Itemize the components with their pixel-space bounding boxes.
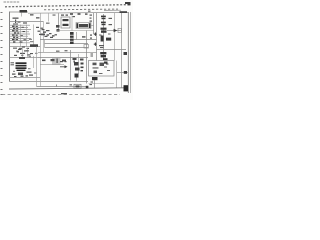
wire vertical x96 bbox=[96, 13, 98, 61]
connector J1 grid vertical 1 bbox=[20, 25, 22, 47]
bus wire 2 bbox=[45, 43, 89, 45]
relay stub down bbox=[21, 13, 23, 17]
junction tick x56 bbox=[56, 85, 58, 87]
connector J1 pin rows bbox=[10, 25, 31, 43]
IF can core bars bbox=[63, 19, 69, 26]
wire mid-left bbox=[10, 57, 39, 59]
wire long horizontal y57 bbox=[38, 57, 88, 59]
specks left of U2 column bbox=[90, 15, 93, 22]
connector J1 right vertical bbox=[33, 25, 35, 48]
polarity ticks bbox=[11, 62, 15, 65]
dash-dot boundary bottom bbox=[2, 94, 120, 96]
wire top-left horizontal bbox=[10, 11, 29, 13]
transformer T2 (dark stack) bbox=[16, 62, 27, 71]
shaded can outline bbox=[52, 58, 61, 65]
resistor R3 body bbox=[30, 44, 38, 47]
relay K1 bbox=[20, 10, 28, 13]
wire vertical x116 bbox=[116, 61, 118, 89]
speck above bus B bbox=[90, 84, 93, 85]
wire horizontal y49 right bbox=[97, 49, 127, 51]
specks under connector bbox=[13, 48, 22, 49]
arrowhead before box bbox=[114, 29, 118, 32]
wire horizontal y64 bbox=[40, 63, 64, 65]
ground bus bottom bbox=[9, 88, 125, 89]
speck on wire bbox=[23, 22, 27, 23]
arrow mark on y72 wire bbox=[124, 71, 127, 74]
speck above bus A bbox=[70, 84, 73, 85]
speck top-left B bbox=[36, 17, 40, 18]
sheet edge second line bbox=[129, 12, 131, 93]
connector J1 faint right specks bbox=[29, 39, 34, 42]
stub vertical right of stack bbox=[33, 56, 35, 68]
small dark mark right rail bbox=[124, 52, 128, 55]
speck on top wire bbox=[53, 15, 56, 16]
wire horizontal upper-left bbox=[10, 21, 44, 23]
wire under can bbox=[56, 30, 94, 32]
wire horizontal y72 right bbox=[117, 72, 129, 74]
paper background bbox=[0, 0, 133, 100]
wire vertical x76 bbox=[76, 32, 78, 40]
speck above can bbox=[73, 16, 76, 17]
transistor Q1 cluster bbox=[13, 18, 21, 25]
scattered faint specks mid-left bbox=[13, 51, 38, 74]
speck on upper-left wire bbox=[46, 23, 50, 24]
oscillator text specks bbox=[41, 29, 55, 37]
bus left vertical bbox=[44, 40, 46, 48]
capacitor C2 bbox=[19, 57, 25, 59]
bus wire 4 bbox=[38, 51, 97, 53]
second label row bbox=[44, 8, 118, 11]
wire horizontal y86 bbox=[37, 86, 89, 88]
wire vertical riser B bbox=[40, 13, 42, 86]
capacitor C6 blob bbox=[75, 74, 79, 78]
corner mark top right bbox=[125, 2, 131, 5]
diode D2 marks bbox=[12, 72, 33, 78]
specks above lower-left wire bbox=[21, 75, 29, 76]
specks below right wire bbox=[99, 34, 111, 36]
wire vertical riser C bbox=[43, 22, 45, 53]
left vertical rail wire bbox=[9, 12, 11, 82]
wire vertical x58 bbox=[58, 13, 60, 30]
wire vertical x93 bbox=[93, 13, 95, 34]
wire vertical x72 bbox=[71, 16, 73, 31]
extra specks mid-left bbox=[26, 50, 33, 54]
speck on top wire right bbox=[88, 11, 91, 12]
connector J1 pin labels bbox=[12, 26, 26, 43]
box U3 text bbox=[93, 63, 109, 74]
small box right end bbox=[118, 29, 122, 33]
can right stub bbox=[91, 25, 94, 27]
wire vertical x70 bbox=[70, 50, 72, 81]
diode D1 marks bbox=[14, 46, 31, 56]
specks under top wire bbox=[70, 13, 88, 15]
wire vertical riser A bbox=[36, 47, 38, 87]
top label row (column headers) bbox=[5, 5, 130, 7]
title text bbox=[4, 1, 21, 3]
box U3 extra specks bbox=[99, 67, 110, 75]
diagonal speck band (component values) bbox=[36, 27, 57, 38]
wire vertical x86 bbox=[86, 31, 88, 84]
fuse box F1 bbox=[74, 84, 81, 88]
wire with resistor R3 bbox=[10, 46, 40, 48]
bus wire 3 bbox=[45, 47, 89, 49]
plus mark node 2 bbox=[94, 43, 97, 46]
transistor Q2 specks bbox=[56, 15, 68, 32]
fuse box F1 mark bbox=[76, 85, 80, 87]
wire under box U3 bbox=[89, 83, 115, 85]
electrolytic capacitor C5 (horizontal can) bbox=[76, 23, 91, 29]
left margin row ticks bbox=[1, 12, 3, 95]
wire vertical x48 bbox=[48, 13, 50, 21]
wire lower-left bbox=[9, 77, 40, 79]
plus mark node 1 bbox=[94, 33, 97, 36]
transistor Q4 cluster bbox=[74, 62, 84, 71]
arrow test point bbox=[60, 61, 68, 68]
wire stub below C6 bbox=[76, 78, 78, 82]
IC U2 column bbox=[99, 14, 112, 64]
short vertical stubs mid-left bbox=[23, 48, 28, 58]
label underline right bbox=[104, 9, 121, 11]
wire vertical x78 bbox=[78, 54, 80, 74]
terminal block dark bbox=[124, 85, 129, 91]
capacitor C4 dark bar bbox=[70, 32, 74, 44]
note text bottom bbox=[61, 93, 67, 94]
polarized capacitor C7 bbox=[91, 77, 98, 88]
resistor R5 specks bbox=[42, 58, 84, 63]
wire vertical x114 bbox=[114, 13, 116, 61]
bus specks row bbox=[56, 50, 93, 56]
small specks right of C4 bbox=[82, 35, 92, 39]
box U3 outline bbox=[89, 61, 115, 77]
wire vertical right rail 1 bbox=[121, 13, 123, 89]
label bar top right bbox=[120, 11, 128, 13]
wire horizontal y81 bbox=[10, 81, 89, 83]
bus wire 1 bbox=[40, 39, 97, 41]
connector J1 grid vertical 2 bbox=[26, 25, 28, 47]
small box mid bbox=[84, 45, 89, 49]
wire vertical right rail 2 (sheet edge) bbox=[127, 12, 129, 93]
speck top-left A bbox=[30, 14, 34, 15]
wire horizontal y30 right bbox=[107, 30, 121, 32]
junction dot at bus bbox=[86, 86, 89, 89]
wire top-mid horizontal bbox=[28, 11, 128, 14]
IF can box bbox=[61, 17, 70, 28]
